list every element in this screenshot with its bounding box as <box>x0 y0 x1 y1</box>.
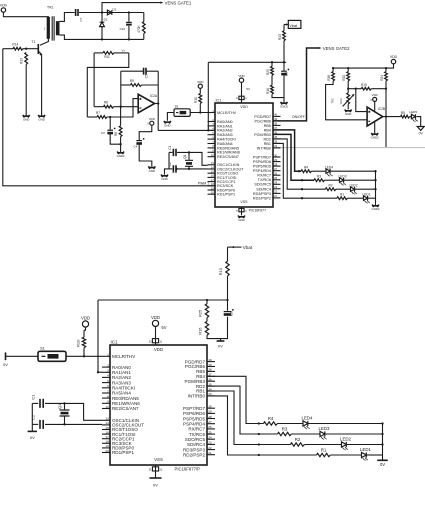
power flag VDD comparator <box>391 59 395 63</box>
svg-text:17: 17 <box>105 435 109 439</box>
svg-text:C6: C6 <box>228 310 233 316</box>
svg-text:13: 13 <box>105 417 109 421</box>
svg-text:21: 21 <box>208 451 212 455</box>
svg-text:LED1: LED1 <box>363 192 371 196</box>
svg-text:8: 8 <box>107 394 109 398</box>
svg-text:RA0/AN0: RA0/AN0 <box>217 120 233 124</box>
svg-text:RB5: RB5 <box>264 124 271 128</box>
wire op-amp output <box>383 116 401 118</box>
svg-text:IC2B: IC2B <box>378 107 386 111</box>
svg-text:IC1: IC1 <box>216 99 222 103</box>
wire op-amp IC2A output to IC1 RA3 <box>155 103 159 105</box>
svg-text:1: 1 <box>107 353 109 357</box>
ground GND2 LED rail top <box>372 205 379 208</box>
svg-text:R16: R16 <box>197 327 202 335</box>
svg-text:MCLR/THV: MCLR/THV <box>112 354 136 359</box>
svg-text:RA3/AN3: RA3/AN3 <box>217 133 233 137</box>
resistor R2 bottom section <box>291 443 305 446</box>
resistor R4 top section <box>301 170 312 173</box>
svg-text:RA1/AN1: RA1/AN1 <box>217 124 233 128</box>
svg-text:R1: R1 <box>340 193 344 197</box>
svg-text:6: 6 <box>107 384 109 388</box>
svg-text:9: 9 <box>107 400 109 404</box>
ground below C4 <box>148 166 155 169</box>
svg-text:0V: 0V <box>30 435 35 440</box>
svg-text:0V: 0V <box>380 462 385 467</box>
LED LED1 bottom section <box>362 452 367 457</box>
power flag VDD top-left <box>1 8 5 12</box>
capacitor C6 bottom <box>227 300 229 311</box>
wire VDD rail comparator <box>333 64 393 68</box>
svg-text:GND: GND <box>238 218 244 222</box>
resistor R18 <box>332 72 335 81</box>
ground 0V bottom-left <box>6 355 39 357</box>
op-amp IC2B <box>367 107 383 126</box>
resistor R11 <box>94 52 103 54</box>
svg-text:VDD: VDD <box>390 55 398 59</box>
LED LED1 top section <box>364 196 368 201</box>
ground below T1 emitter <box>38 115 45 118</box>
svg-text:GND: GND <box>38 117 44 121</box>
svg-text:R10: R10 <box>194 97 198 103</box>
svg-text:PWM 1: PWM 1 <box>198 181 209 185</box>
ground 0V below LED5 <box>417 117 421 127</box>
svg-text:C1: C1 <box>31 394 36 400</box>
svg-text:30: 30 <box>208 405 212 409</box>
svg-text:Vbat: Vbat <box>243 245 253 250</box>
wire IC to R4 chain bottom <box>207 376 264 423</box>
svg-text:24: 24 <box>208 436 212 440</box>
svg-text:RX/RC7: RX/RC7 <box>257 174 271 178</box>
wire to non-inverting input <box>356 89 367 112</box>
ground GND2 below divider <box>281 102 288 105</box>
power VDD op-amp IC2A <box>150 121 154 125</box>
svg-text:18: 18 <box>105 440 109 444</box>
wire S1 to MCLR <box>190 112 215 114</box>
resistor R3 top section <box>314 179 325 182</box>
svg-text:PSP7/RD7: PSP7/RD7 <box>253 155 271 159</box>
net label VENS GATE1 <box>102 3 161 13</box>
transistor T1 <box>40 39 48 46</box>
svg-text:D2: D2 <box>112 8 116 12</box>
svg-text:LED2: LED2 <box>340 437 352 442</box>
svg-text:C2: C2 <box>31 414 36 420</box>
LED LED4 bottom section <box>303 421 308 426</box>
svg-text:GND2: GND2 <box>117 154 125 158</box>
net label Vbat bottom <box>228 246 242 248</box>
capacitor C2 upper <box>166 168 172 170</box>
wire output to gray net <box>385 117 387 148</box>
LED LED2 top section <box>351 187 355 192</box>
wire divider rail to IC1 RA pin <box>207 62 209 130</box>
svg-text:GND2: GND2 <box>371 207 379 211</box>
svg-text:19: 19 <box>105 444 109 448</box>
svg-text:25: 25 <box>208 430 212 434</box>
svg-text:RD1/PSP1: RD1/PSP1 <box>112 450 134 455</box>
ground below R13 <box>23 115 30 118</box>
svg-text:C6: C6 <box>285 72 289 76</box>
svg-text:R4: R4 <box>304 166 308 170</box>
svg-text:T1: T1 <box>32 40 36 44</box>
resistor R14 <box>3 48 13 50</box>
svg-text:R18: R18 <box>327 75 331 81</box>
svg-text:RA2/AN2: RA2/AN2 <box>217 129 233 133</box>
ground below S1 <box>164 121 171 124</box>
svg-text:V+: V+ <box>122 49 126 53</box>
ground 0V below divider bottom <box>220 339 222 341</box>
resistor R19 <box>348 88 361 90</box>
svg-text:5V: 5V <box>161 325 166 330</box>
wire IC to R2 chain bottom <box>207 391 291 445</box>
resistor R7 <box>87 116 97 118</box>
wire rail to RA pin bottom <box>98 300 102 372</box>
svg-text:0V: 0V <box>218 344 223 349</box>
wire PWM net from R14 to IC1 pin RD0 <box>3 49 215 186</box>
wire R11 left to R6 input node <box>93 53 95 107</box>
svg-text:R23: R23 <box>339 98 343 104</box>
trimmer TR2 <box>347 93 350 104</box>
capacitor C6 top divider <box>283 62 285 70</box>
wire divider rail top <box>208 61 286 63</box>
svg-text:R11: R11 <box>104 55 110 59</box>
svg-text:ON/OFF: ON/OFF <box>292 115 305 119</box>
svg-text:S1: S1 <box>175 105 179 109</box>
resistor R10 bottom <box>82 337 85 348</box>
svg-text:Q1: Q1 <box>57 403 62 409</box>
resistor R24 pull-up <box>385 72 388 81</box>
svg-text:VDD: VDD <box>197 80 204 84</box>
svg-text:R8: R8 <box>114 132 118 136</box>
resistor R16 top divider <box>271 85 274 94</box>
resistor R5 <box>401 115 410 118</box>
resistor R2 top section <box>326 188 337 191</box>
wire LED rail bottom section <box>382 424 384 460</box>
resistor R20 <box>347 72 350 81</box>
svg-text:C1: C1 <box>168 145 172 149</box>
svg-text:27: 27 <box>208 420 212 424</box>
svg-text:22: 22 <box>208 446 212 450</box>
svg-text:VDD: VDD <box>154 347 163 352</box>
svg-text:LED2: LED2 <box>350 183 358 187</box>
diode D2 <box>107 10 111 15</box>
capacitor C1 bottom <box>32 402 38 404</box>
svg-text:PGC/RB6: PGC/RB6 <box>255 119 271 123</box>
wire IC to R1 chain bottom <box>207 396 317 455</box>
wire IC to R3 chain bottom <box>207 386 278 434</box>
svg-text:7: 7 <box>107 389 109 393</box>
svg-text:S1: S1 <box>40 346 46 351</box>
capacitor C7 <box>76 9 78 16</box>
svg-text:GND2: GND2 <box>371 135 379 139</box>
svg-text:RE1/WR/AN6: RE1/WR/AN6 <box>217 151 240 155</box>
svg-text:Q1: Q1 <box>183 154 187 158</box>
ground below upper IC VSS <box>241 207 243 215</box>
svg-text:IC2A: IC2A <box>150 94 158 98</box>
switch S1 top section <box>174 109 190 117</box>
svg-text:3: 3 <box>107 369 109 373</box>
svg-text:D1: D1 <box>104 18 108 22</box>
crystal Q1 bottom <box>64 403 66 409</box>
svg-text:28: 28 <box>208 415 212 419</box>
power VDD above R10 bottom <box>82 321 88 327</box>
svg-text:LED3: LED3 <box>319 426 331 431</box>
transformer TR1 <box>47 17 50 39</box>
resistor R25 bottom <box>205 304 208 318</box>
ground GND2 below R8 <box>120 144 122 152</box>
resistor R13 divider top <box>283 25 285 31</box>
switch S1 bottom <box>38 351 66 361</box>
power VDD 5V upper IC <box>239 78 243 82</box>
svg-text:470K: 470K <box>137 24 141 32</box>
svg-text:R15: R15 <box>218 267 223 275</box>
svg-text:R3: R3 <box>317 175 321 179</box>
svg-text:VDD: VDD <box>151 315 160 320</box>
svg-text:TR2: TR2 <box>331 98 335 104</box>
svg-text:R19: R19 <box>361 83 367 87</box>
svg-text:MCLR/THV: MCLR/THV <box>217 111 237 115</box>
ground below trimmer <box>345 110 352 113</box>
wire C7 to rectifier rail <box>79 12 144 14</box>
resistor R13 <box>25 53 28 65</box>
svg-text:R13: R13 <box>278 34 282 40</box>
svg-text:26: 26 <box>208 425 212 429</box>
svg-text:RE2/CS/AN7: RE2/CS/AN7 <box>217 155 239 159</box>
capacitor C10 <box>128 13 130 22</box>
resistor R12 470K <box>142 22 145 34</box>
svg-text:GND2: GND2 <box>280 104 288 108</box>
LED LED3 bottom section <box>320 431 325 436</box>
capacitor C5 feedback <box>121 70 144 72</box>
resistor R25 top divider <box>271 66 274 75</box>
svg-text:C7: C7 <box>79 17 83 21</box>
svg-text:R1: R1 <box>321 448 327 453</box>
node A wire to op-amp non-inverting input <box>121 106 138 108</box>
svg-text:10: 10 <box>105 405 109 409</box>
resistor R10 top section <box>199 94 202 104</box>
svg-text:R24: R24 <box>380 75 384 81</box>
ground 0V below bottom IC VSS <box>155 465 157 478</box>
svg-text:R3: R3 <box>282 427 288 432</box>
svg-text:RD2: RD2 <box>263 137 271 141</box>
svg-text:5V: 5V <box>246 87 250 91</box>
svg-text:R5: R5 <box>401 111 405 115</box>
svg-text:RD1/PSP1: RD1/PSP1 <box>217 193 235 197</box>
capacitor C1 upper <box>169 151 172 153</box>
svg-text:GND: GND <box>345 112 351 116</box>
LED5 <box>410 116 412 118</box>
resistor R16 bottom <box>206 318 208 322</box>
svg-text:C5: C5 <box>144 74 148 78</box>
wire IC1 to R4 chain <box>273 130 301 171</box>
svg-text:Vbat: Vbat <box>289 24 298 28</box>
svg-text:RD2/PSP2: RD2/PSP2 <box>253 196 271 200</box>
svg-text:VDD: VDD <box>238 74 245 78</box>
svg-text:36: 36 <box>208 378 212 382</box>
svg-text:VDD: VDD <box>149 117 155 121</box>
svg-text:PGM/RB3: PGM/RB3 <box>254 133 271 137</box>
svg-text:IC1: IC1 <box>111 340 119 345</box>
LED LED2 bottom section <box>342 442 347 447</box>
svg-text:C10: C10 <box>120 27 126 31</box>
svg-text:SDO/RC5: SDO/RC5 <box>254 183 271 187</box>
wire transformer secondary top to C7 <box>60 13 75 22</box>
svg-text:GND: GND <box>23 117 29 121</box>
svg-text:0V: 0V <box>419 131 424 135</box>
capacitor C2 bottom <box>32 423 38 425</box>
power VDD 5V bottom IC <box>152 320 158 326</box>
svg-text:LED3: LED3 <box>339 174 347 178</box>
wire R18 to inverting input <box>326 81 368 120</box>
svg-text:VSS: VSS <box>154 457 163 462</box>
wire IC1 to R1 chain <box>273 143 337 198</box>
resistor R6 <box>104 105 114 108</box>
capacitor C3 electrolytic <box>109 117 111 130</box>
svg-text:R13: R13 <box>19 58 23 64</box>
svg-text:R4: R4 <box>268 416 274 421</box>
svg-text:20: 20 <box>105 449 109 453</box>
svg-text:RA4/T0CKI: RA4/T0CKI <box>217 138 236 142</box>
svg-text:R2: R2 <box>328 184 332 188</box>
svg-text:VSS: VSS <box>240 200 248 204</box>
resistor R1 top section <box>337 197 348 200</box>
svg-text:R6: R6 <box>104 101 108 105</box>
wire LED rail top section <box>375 171 377 205</box>
IC U1 PIC16F877 upper <box>215 103 273 207</box>
svg-text:R25: R25 <box>266 69 270 75</box>
svg-text:4: 4 <box>107 374 109 378</box>
svg-text:SDI/RC4: SDI/RC4 <box>256 187 271 191</box>
svg-text:40: 40 <box>208 358 212 362</box>
svg-text:16: 16 <box>105 430 109 434</box>
svg-text:VDD: VDD <box>0 4 8 8</box>
svg-text:TX/RC6: TX/RC6 <box>258 178 271 182</box>
svg-text:RB1: RB1 <box>264 142 271 146</box>
svg-text:LED4: LED4 <box>325 165 333 169</box>
svg-text:15: 15 <box>105 426 109 430</box>
wire IC1 to R2 chain <box>273 139 326 189</box>
svg-text:R9: R9 <box>130 79 134 83</box>
svg-text:GND: GND <box>161 177 167 181</box>
ground oscillator upper <box>161 175 168 178</box>
ground 0V oscillator bottom <box>28 430 37 432</box>
LED LED3 top section <box>340 178 344 183</box>
ground 0V LED rail bottom <box>377 459 388 461</box>
crystal Q1 upper <box>188 152 190 159</box>
svg-text:VDD: VDD <box>372 93 378 97</box>
svg-text:39: 39 <box>208 363 212 367</box>
LED LED4 top section <box>326 169 330 174</box>
svg-text:RD2/PSP2: RD2/PSP2 <box>183 453 205 458</box>
svg-text:INT/RB0: INT/RB0 <box>257 146 271 150</box>
svg-text:RA5/AN4: RA5/AN4 <box>217 142 233 146</box>
wire IC1 to R3 chain <box>273 134 314 180</box>
resistor R1 bottom section <box>317 453 331 456</box>
svg-text:VENS GATE1: VENS GATE1 <box>165 0 192 5</box>
svg-text:0V: 0V <box>3 362 8 367</box>
svg-text:VDD: VDD <box>240 105 248 109</box>
svg-text:TR1: TR1 <box>47 6 54 10</box>
svg-text:GND: GND <box>164 123 170 127</box>
wire rectifier bottom rail <box>60 35 144 39</box>
svg-text:R7: R7 <box>96 111 100 115</box>
svg-text:RE2/CS/AN7: RE2/CS/AN7 <box>112 406 139 411</box>
wire oscillator left rail bottom <box>31 403 33 431</box>
wire oscillator left rail upper <box>168 152 170 169</box>
resistor R3 bottom section <box>278 432 292 435</box>
svg-text:PSP4/RD4: PSP4/RD4 <box>253 169 271 173</box>
svg-text:RB4: RB4 <box>264 128 271 132</box>
wire S1 left to ground <box>167 113 174 121</box>
wire VDD to transformer primary <box>3 16 48 18</box>
svg-text:LED4: LED4 <box>302 416 314 421</box>
ground GND2 below op-amp IC2B <box>374 121 376 133</box>
svg-text:0V: 0V <box>153 483 158 488</box>
svg-text:GND: GND <box>149 169 155 173</box>
svg-text:29: 29 <box>208 410 212 414</box>
svg-text:C3: C3 <box>101 131 105 135</box>
svg-text:PIC16F877: PIC16F877 <box>249 209 266 213</box>
op-amp IC2A <box>138 94 154 112</box>
svg-text:R2: R2 <box>295 437 301 442</box>
svg-text:R25: R25 <box>197 309 202 317</box>
wire divider rail bottom <box>98 299 228 301</box>
net wire ON/OFF to VENS GATE2 <box>273 48 319 121</box>
net label Vbat top <box>288 20 301 28</box>
resistor R4 bottom section <box>264 422 278 425</box>
resistor R15 bottom <box>227 247 229 261</box>
resistor R9 feedback <box>121 84 131 86</box>
svg-text:R16: R16 <box>266 88 270 94</box>
svg-text:RD3/PSP3: RD3/PSP3 <box>253 192 271 196</box>
gray net wire INT/RB0 <box>273 147 425 149</box>
svg-text:VENS GATE2: VENS GATE2 <box>323 46 350 51</box>
power VDD above R10 <box>198 84 202 88</box>
svg-text:23: 23 <box>208 441 212 445</box>
svg-text:LED1: LED1 <box>360 447 372 452</box>
IC U2 PIC16F877 bottom <box>110 345 207 465</box>
svg-text:5: 5 <box>107 379 109 383</box>
svg-text:C4: C4 <box>133 144 137 148</box>
svg-text:LED5: LED5 <box>409 110 417 114</box>
svg-text:14: 14 <box>105 421 109 425</box>
capacitor C4 decoupling <box>139 125 152 140</box>
wire S1 to MCLR bottom <box>66 355 102 357</box>
svg-text:PSP6/RD6: PSP6/RD6 <box>253 160 271 164</box>
svg-text:38: 38 <box>208 368 212 372</box>
power VDD op-amp IC2B <box>373 97 377 101</box>
svg-text:PGD/RD7: PGD/RD7 <box>254 115 271 119</box>
diode D1 <box>101 13 103 22</box>
wire feedback rail left <box>120 71 122 107</box>
svg-text:R20: R20 <box>342 75 346 81</box>
svg-text:R10: R10 <box>76 339 81 347</box>
svg-text:RE0/RD/AN5: RE0/RD/AN5 <box>217 146 239 150</box>
svg-text:VDD: VDD <box>81 316 90 321</box>
svg-text:PIC16F877/P: PIC16F877/P <box>174 466 200 471</box>
svg-text:PSP5/RD5: PSP5/RD5 <box>253 165 271 169</box>
svg-text:R14: R14 <box>12 43 18 47</box>
wire R11 right to R7 input node <box>87 53 129 117</box>
svg-text:2: 2 <box>107 363 109 367</box>
svg-text:INT/RB0: INT/RB0 <box>188 394 206 399</box>
resistor R8 <box>120 107 122 126</box>
